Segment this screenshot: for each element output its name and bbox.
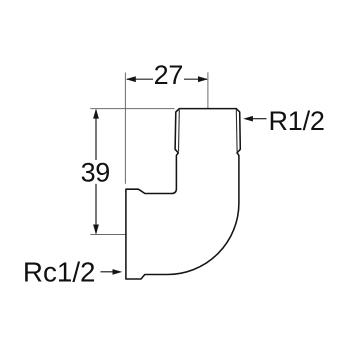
svg-text:Rc1/2: Rc1/2	[23, 257, 96, 288]
svg-text:R1/2: R1/2	[269, 106, 325, 136]
svg-text:39: 39	[81, 157, 110, 187]
svg-text:27: 27	[154, 60, 184, 90]
